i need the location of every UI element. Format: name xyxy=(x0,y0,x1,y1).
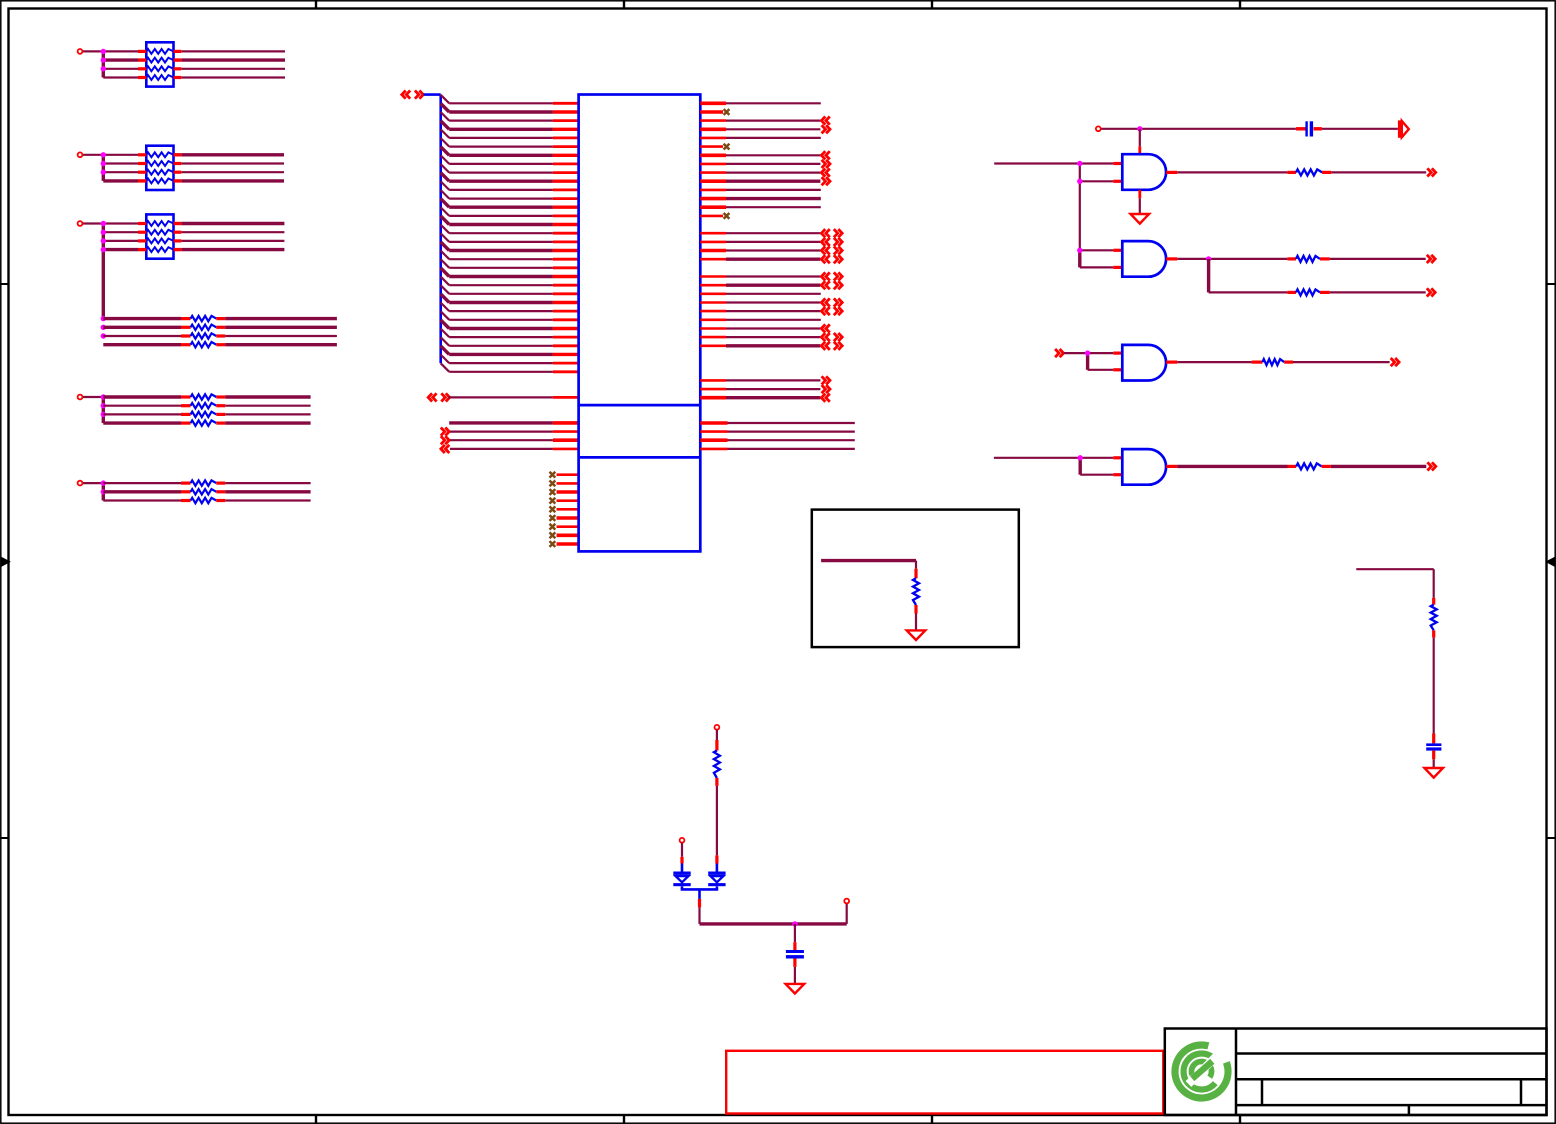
wire U2D output xyxy=(1177,465,1287,468)
junctions RN2 xyxy=(101,152,106,175)
net connector out2 » xyxy=(1427,255,1435,263)
wire U2C input net xyxy=(1064,352,1114,354)
pin U2A top xyxy=(1138,146,1141,154)
resistor R12 xyxy=(1287,291,1296,294)
diode D1 xyxy=(673,872,690,887)
pins U2B inputs xyxy=(1113,249,1122,252)
wire RC net top xyxy=(1356,568,1433,570)
pin D2 anode xyxy=(715,855,718,863)
net connectors at U1 mid-left pins xyxy=(441,428,449,436)
pin PRN2 xyxy=(78,152,83,157)
and-gate U2B xyxy=(1122,241,1166,277)
capacitor C3 xyxy=(794,924,796,942)
pins U1 mid-right xyxy=(700,423,727,449)
pin U2D output xyxy=(1166,465,1177,468)
junctions RB xyxy=(101,394,106,417)
pin U2A output xyxy=(1166,171,1177,174)
pins U2A inputs xyxy=(1113,162,1122,165)
IC U1 xyxy=(579,95,701,552)
junctions RC xyxy=(101,480,106,494)
junctions RN1 xyxy=(101,49,106,72)
pin PRB xyxy=(78,395,83,400)
wire U1 mid-right rows xyxy=(728,423,855,449)
wire R10 to connector xyxy=(1331,171,1426,173)
pins RN3 xyxy=(138,224,181,250)
junctions RN3 xyxy=(101,221,106,253)
pins U1 lower-left no-connects (9) xyxy=(550,472,579,547)
wire U2A bottom to ground xyxy=(1139,198,1141,214)
wire U2B output branch xyxy=(1207,259,1210,293)
wire R14 to connector xyxy=(1331,465,1426,468)
wire RB junction column xyxy=(102,397,105,423)
wire RC input from pin xyxy=(83,482,104,484)
pins U2C inputs xyxy=(1113,352,1122,355)
capacitor C1 xyxy=(1296,127,1306,130)
junction U2B output xyxy=(1206,256,1211,261)
wire R13 to connector xyxy=(1293,361,1390,363)
resistor R21 xyxy=(1432,598,1435,605)
bus net connector «» at bus head xyxy=(402,91,410,99)
junction gate inputs B xyxy=(1077,179,1082,184)
wire U1 left bus entry wires (32) xyxy=(441,95,553,372)
wire C1 to power port xyxy=(1322,128,1398,130)
wire to pin P22 xyxy=(846,904,848,924)
pin P10 xyxy=(1096,126,1101,131)
wire U2C output xyxy=(1177,361,1251,363)
pin PRN1 xyxy=(78,49,83,54)
wire RN2 left row wires xyxy=(103,155,138,181)
pin PRN3 xyxy=(78,221,83,226)
junctions RA xyxy=(101,316,106,339)
wire RA left rows xyxy=(103,319,181,345)
junction U2D input xyxy=(1078,455,1083,460)
wire RN2 junction column xyxy=(102,155,105,181)
wire RN2 output rows xyxy=(181,155,284,181)
junction power line xyxy=(1137,126,1142,131)
ground GND4 xyxy=(786,984,805,994)
no-connect marks U1 right xyxy=(724,109,730,219)
wire RN3 output rows xyxy=(181,224,284,250)
diode D2 xyxy=(708,872,725,887)
resistor R10 xyxy=(1287,171,1296,174)
wire R20 to ground xyxy=(915,614,917,631)
pin PRC xyxy=(78,481,83,486)
wire R22 to D2 xyxy=(716,786,718,856)
pins U1 mid-left xyxy=(553,423,579,449)
resistor network RN1 xyxy=(146,42,173,86)
junction diode net xyxy=(792,921,797,926)
ground GND3 xyxy=(1424,768,1443,778)
and-gate U2C xyxy=(1122,345,1166,381)
net connectors U1 right xyxy=(821,117,842,402)
pin U2C output xyxy=(1166,361,1177,364)
and-gate U2A xyxy=(1122,154,1166,190)
wire junction to U2A top pin xyxy=(1139,129,1141,146)
pin P22 xyxy=(844,899,849,904)
logo xyxy=(1175,1045,1228,1098)
wire RN2 input from pin xyxy=(83,154,104,156)
pin U1 left 33 xyxy=(553,396,579,399)
pins U2D inputs xyxy=(1113,456,1122,459)
wire detail box net xyxy=(821,559,916,562)
wire RN3 input from pin xyxy=(83,222,104,224)
resistor R13 xyxy=(1252,361,1263,364)
title block xyxy=(1165,1029,1547,1116)
net connector out3 » xyxy=(1427,288,1435,296)
power port VCC xyxy=(1398,120,1402,137)
wire R21 to C2 xyxy=(1433,638,1435,734)
wire U2D input net xyxy=(994,457,1113,459)
wire R12 to connector xyxy=(1330,291,1426,293)
wire RB left rows xyxy=(103,397,181,423)
pin U2B output xyxy=(1166,257,1177,260)
pin P20 xyxy=(715,725,720,730)
wire RN1 input from pin xyxy=(83,50,104,52)
resistor R11 xyxy=(1287,257,1296,260)
capacitor C2 xyxy=(1432,734,1435,744)
wire U2A input net xyxy=(994,162,1113,164)
pins U1 right xyxy=(700,103,726,397)
wire RC right rows xyxy=(225,483,310,500)
resistor network RN3 xyxy=(146,214,173,258)
bus B1 (blue) xyxy=(424,93,441,96)
resistors RA (array of 4) xyxy=(181,316,225,348)
ground GND2 xyxy=(907,630,926,640)
wire P20 to R22 xyxy=(716,730,718,740)
net connector in3 » xyxy=(1055,349,1063,357)
annotation rectangle xyxy=(726,1051,1163,1114)
wire diode cathodes join (blue) xyxy=(681,886,684,889)
ground GND1 xyxy=(1131,214,1150,224)
detail box outline xyxy=(812,510,1019,647)
resistor R22 xyxy=(715,740,718,751)
resistors RC (array of 3) xyxy=(181,480,225,503)
resistors RB (array of 4) xyxy=(181,394,225,426)
wire U2B output xyxy=(1177,258,1287,260)
and-gate U2D xyxy=(1122,449,1166,485)
wire RN1 output rows xyxy=(181,51,285,77)
pin P21 xyxy=(680,838,685,843)
pins U1 left (32) xyxy=(553,103,579,372)
pin D1 anode xyxy=(680,857,683,864)
pin diode common xyxy=(698,899,701,908)
wire RN3 junction column xyxy=(102,224,105,319)
wire RB input from pin xyxy=(83,396,104,398)
wire RN3 left row wires xyxy=(103,224,138,250)
resistor R20 xyxy=(914,569,917,579)
wire C2 to ground xyxy=(1433,759,1435,768)
junction gate inputs A xyxy=(1077,161,1082,166)
wire RC junction column xyxy=(102,483,105,500)
resistor R14 xyxy=(1288,465,1297,468)
net connector out4 » xyxy=(1391,358,1399,366)
wire U1 right row wires xyxy=(726,103,821,397)
wire U1 left pin 33 xyxy=(449,396,553,398)
net connector out1 » xyxy=(1427,168,1435,176)
net connector out5 » xyxy=(1427,462,1435,470)
junction gate inputs C xyxy=(1077,248,1082,253)
wire RB right rows xyxy=(225,397,310,423)
pins RN2 xyxy=(138,155,181,181)
wire RA right rows xyxy=(225,319,337,345)
wire C3 to ground xyxy=(794,967,796,984)
wire R11 to connector xyxy=(1330,258,1426,260)
wire RN1 junction column xyxy=(102,51,105,77)
junction U2C input xyxy=(1085,350,1090,355)
wire power line to capacitor C1 xyxy=(1101,128,1140,130)
pin U2A bottom xyxy=(1138,190,1141,199)
wire P21 to D1 xyxy=(681,843,683,857)
wire RC left rows xyxy=(103,483,181,500)
resistor network RN2 xyxy=(146,146,173,190)
wire U2A output xyxy=(1177,171,1287,173)
wire U1 mid-left rows xyxy=(449,423,553,449)
wire RN1 left row wires xyxy=(103,51,138,77)
pins RN1 xyxy=(138,51,181,77)
wire diode common down xyxy=(698,907,700,924)
net connector «» at U1 left pin 33 xyxy=(428,393,436,401)
